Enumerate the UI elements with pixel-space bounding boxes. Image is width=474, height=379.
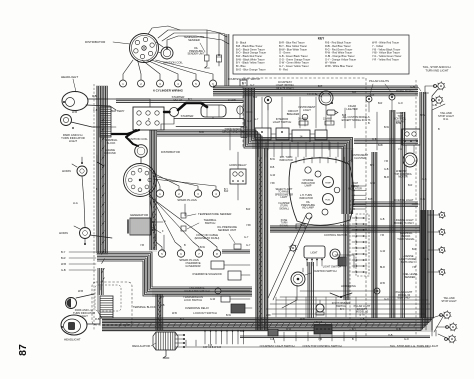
regulator leader xyxy=(151,343,156,346)
svg-text:G-B: G-B xyxy=(384,168,389,171)
floor connector dot b2 xyxy=(210,330,211,331)
distributor terminal 6 xyxy=(135,40,139,44)
east comb wire 4 xyxy=(352,199,366,201)
svg-text:Bl-R: Bl-R xyxy=(384,176,389,179)
svg-text:HORN: HORN xyxy=(62,169,71,173)
svg-text:DISTRIBUTOR: DISTRIBUTOR xyxy=(161,150,180,154)
cowl terminal block xyxy=(100,296,113,318)
floor connector dot b4 xyxy=(221,330,222,331)
arrow G-B xyxy=(69,269,96,271)
svg-text:G-O: G-O xyxy=(398,102,403,105)
pillar light bottom fil xyxy=(376,290,378,292)
horn upper body xyxy=(77,166,87,176)
floor connector stub b5 xyxy=(226,330,228,344)
svg-text:B-R: B-R xyxy=(61,256,66,260)
8cyl terminal 8 xyxy=(131,171,135,175)
distributor cap (6-cyl) outer xyxy=(130,34,159,63)
svg-text:MODEL 60 ONLY: MODEL 60 ONLY xyxy=(396,90,415,93)
svg-text:G-Y: G-Y xyxy=(254,118,259,121)
tail stop RH lamp upper xyxy=(437,81,446,90)
top rear band right xyxy=(213,86,418,95)
engine lower band xyxy=(222,250,250,253)
ignition coil (6-cyl) xyxy=(161,47,173,59)
floor band hatch xyxy=(119,323,417,328)
horn upper bracket xyxy=(72,164,77,167)
feeder stub 2 xyxy=(285,297,287,317)
tb row 1 xyxy=(352,217,367,219)
east comb dot 4 xyxy=(353,199,354,200)
svg-text:FUEL: FUEL xyxy=(325,200,331,202)
tb row dot L5 xyxy=(356,241,358,243)
cluster stub 2 xyxy=(303,157,305,163)
feeder stub 7 xyxy=(335,297,337,317)
svg-text:CLOCK: CLOCK xyxy=(307,92,317,96)
svg-text:Y-B Y B: Y-B Y B xyxy=(314,321,323,324)
east comb wire 1 xyxy=(352,185,366,187)
headlight RH lens xyxy=(66,98,75,107)
steering column line B xyxy=(273,217,311,300)
distributor terminal 5 xyxy=(134,49,138,53)
conv top control switch xyxy=(314,325,332,334)
svg-text:TERMINAL BLOCK: TERMINAL BLOCK xyxy=(133,305,156,309)
8cyl terminal 1 xyxy=(138,168,142,172)
cluster leader xyxy=(345,159,352,164)
tb row 7 xyxy=(352,253,367,255)
floor band stub r1 xyxy=(283,332,285,341)
8cyl center xyxy=(139,179,141,181)
svg-text:C-B: C-B xyxy=(270,338,275,341)
generator body xyxy=(130,218,151,235)
svg-text:KEY: KEY xyxy=(318,37,325,41)
tb row dot L9 xyxy=(356,265,358,267)
svg-text:R-B: R-B xyxy=(270,166,275,169)
battery-relay cable xyxy=(164,111,170,113)
svg-text:LICENSE LIGHT: LICENSE LIGHT xyxy=(394,198,414,202)
svg-text:COURTESY LIGHT SWITCH: COURTESY LIGHT SWITCH xyxy=(260,344,295,348)
svg-text:B-B: B-B xyxy=(342,114,347,117)
svg-text:TAIL, STOP AND L.H. TURN IND L: TAIL, STOP AND L.H. TURN IND LIGHT xyxy=(390,344,439,348)
courtesy sw leader xyxy=(273,337,275,343)
dimmer lead xyxy=(319,300,321,304)
floor connector dot b1 xyxy=(204,330,205,331)
plug wire 5 xyxy=(151,60,196,80)
temp sender mid leader xyxy=(187,214,196,216)
pillar bottom lead xyxy=(376,294,378,318)
coil run to vertical xyxy=(196,36,229,44)
panel stub 4 xyxy=(281,142,283,157)
dash band east continuation xyxy=(354,139,418,144)
kickdown switch xyxy=(215,288,221,294)
floor connector stub b1 xyxy=(204,330,206,344)
od wire 3 xyxy=(221,290,250,292)
horn lower bracket xyxy=(74,226,80,229)
light switch lead 3 xyxy=(316,260,318,266)
svg-text:PILLAR LIGHTS: PILLAR LIGHTS xyxy=(369,79,389,83)
floor connector stub b2 xyxy=(210,330,212,344)
connecting wire 2 xyxy=(104,126,116,128)
svg-text:B-R: B-R xyxy=(412,248,417,251)
cigar lighter symbol xyxy=(327,110,335,115)
generator terminal A xyxy=(152,221,154,223)
conv sw terminal 4 xyxy=(328,328,330,330)
pillar leader R xyxy=(385,84,391,92)
headlight LH feed xyxy=(87,318,100,324)
panel link 2 xyxy=(289,133,292,135)
svg-text:CONTROL SWITCH: CONTROL SWITCH xyxy=(324,234,347,237)
headlight RH feed xyxy=(88,99,150,107)
right harness B xyxy=(390,110,395,318)
engine dash band into mid column xyxy=(157,130,262,330)
leader to distributor xyxy=(113,42,130,44)
horn upper coil xyxy=(80,169,84,173)
lighter drop xyxy=(330,115,332,124)
svg-text:B-B: B-B xyxy=(352,91,357,94)
svg-text:IGNITION SWITCH: IGNITION SWITCH xyxy=(314,269,337,273)
svg-text:B-Bl: B-Bl xyxy=(368,198,373,201)
svg-text:Bl-R - Blue Red TracerBl-Y - B: Bl-R - Blue Red TracerBl-Y - Blue Yellow… xyxy=(279,41,310,72)
svg-text:Y-Bl: Y-Bl xyxy=(266,314,271,317)
arrow B-Y xyxy=(69,251,96,253)
8cyl terminal 5 xyxy=(138,188,142,192)
panel stub 3 xyxy=(273,142,275,157)
panel stub 5 xyxy=(289,142,291,157)
light switch terminal 4 xyxy=(321,259,323,261)
distributor rotor dot xyxy=(143,47,144,48)
starter relay xyxy=(170,108,179,117)
plug wire 4 xyxy=(147,60,179,80)
svg-text:G-Y: G-Y xyxy=(250,84,255,87)
fuel gauge xyxy=(323,194,334,205)
svg-text:C-B Y-B B-W G-B: C-B Y-B B-W G-B xyxy=(203,347,221,349)
panel stub 2 xyxy=(265,142,267,157)
RH tail feed 1 xyxy=(432,89,438,330)
park turn RH lens xyxy=(63,117,68,122)
feeder stub 3 xyxy=(295,297,297,317)
conv top motor xyxy=(403,153,417,167)
regulator terminal stub 3 xyxy=(175,342,184,344)
floor band stub r7 xyxy=(355,332,357,341)
east comb dot 1 xyxy=(353,185,354,186)
svg-text:HEADLIGHT: HEADLIGHT xyxy=(61,75,78,79)
tb row dot R6 xyxy=(363,247,365,249)
rear feeder 3 xyxy=(272,313,425,315)
feeder stub 6 xyxy=(325,297,327,317)
conv top control relay xyxy=(402,129,420,145)
svg-text:B-R: B-R xyxy=(370,94,375,97)
feeder stub 8 xyxy=(345,297,347,317)
overdrive solenoid xyxy=(228,271,241,280)
rear lamp lead y215 xyxy=(428,214,439,216)
plug wire 1 xyxy=(123,60,133,80)
cluster stub 5 xyxy=(327,157,329,163)
cap side wire xyxy=(156,42,163,47)
engine ground wire xyxy=(97,155,104,166)
horn upper terminal xyxy=(81,162,83,164)
cluster stub 6 xyxy=(335,157,337,163)
interior light switch xyxy=(255,128,271,140)
ignition coil inner xyxy=(163,49,171,57)
svg-text:HEADLIGHT: HEADLIGHT xyxy=(64,338,81,342)
east comb wire 6 xyxy=(352,208,366,210)
fuse riser 2 xyxy=(354,108,356,128)
spark plug 1 xyxy=(156,190,163,197)
starter down lead xyxy=(212,117,214,119)
instrument cluster outline xyxy=(289,158,354,226)
panel stub 6 xyxy=(297,142,299,157)
svg-text:O-Bl: O-Bl xyxy=(420,198,425,201)
svg-text:B-W: B-W xyxy=(396,122,402,125)
panel stub 1 xyxy=(257,142,259,157)
svg-text:OVERDRIVE SOLENOID: OVERDRIVE SOLENOID xyxy=(192,272,222,276)
cap top wire xyxy=(148,26,180,34)
starter out loop right xyxy=(243,119,245,127)
ct relay pts xyxy=(412,132,416,136)
main dash band underlay xyxy=(252,137,353,149)
relay-motor lead 1 xyxy=(405,145,407,153)
light switch knob inner xyxy=(332,251,337,256)
ignition coil (8-cyl) core xyxy=(137,147,145,155)
8cyl terminal 6 xyxy=(131,185,135,189)
connecting wire 8 xyxy=(335,255,354,268)
ignition switch leader xyxy=(305,273,311,275)
svg-text:B-Y: B-Y xyxy=(352,328,357,331)
ignition switch xyxy=(291,272,305,286)
fw connector 1 xyxy=(241,127,247,132)
thermal switch xyxy=(181,226,186,231)
connecting wire 31 xyxy=(436,326,447,328)
horn relay coil xyxy=(233,172,237,176)
15A fuse xyxy=(325,121,334,125)
key box frame xyxy=(233,35,409,74)
column dashed boundary xyxy=(349,200,351,330)
plug wire 5 8cyl xyxy=(149,190,162,250)
panel lamp left xyxy=(289,244,297,253)
temp sender symbol xyxy=(205,55,210,61)
od wire 1 xyxy=(224,264,250,266)
svg-text:15 AMP: 15 AMP xyxy=(323,118,332,121)
regulator terminal 1 xyxy=(183,334,185,336)
rear lamp lead y232 xyxy=(428,231,439,233)
coil top wire xyxy=(167,36,196,47)
svg-text:B-W: B-W xyxy=(200,246,206,249)
tail LH lamp B xyxy=(449,322,458,331)
8cyl terminal 4 xyxy=(145,185,149,189)
tb row dot L4 xyxy=(356,235,358,237)
panel feed drop 2 xyxy=(281,97,283,128)
svg-text:Y-B: Y-B xyxy=(412,266,416,269)
cluster stub 7 xyxy=(343,157,345,163)
east band 202 xyxy=(352,202,418,207)
cowl dashed xyxy=(365,78,367,336)
engine column underlay xyxy=(149,130,157,252)
svg-text:W-B: W-B xyxy=(78,289,83,293)
tb row dot R10 xyxy=(363,271,365,273)
floor connector stub b6 xyxy=(232,330,234,344)
distributor terminal 4 xyxy=(140,54,144,58)
ct relay coil xyxy=(405,132,409,136)
svg-text:W-B: W-B xyxy=(380,282,385,285)
connecting wire 11 xyxy=(246,111,252,113)
firewall column and main dash band xyxy=(244,88,353,214)
right drop underlay xyxy=(342,148,354,214)
svg-text:HORN RING: HORN RING xyxy=(341,284,356,288)
courtesy light center xyxy=(267,99,269,101)
firewall column underlay xyxy=(244,88,255,138)
svg-text:G-W: G-W xyxy=(210,298,216,301)
floor connector dot b6 xyxy=(232,330,233,331)
connecting wire 28 xyxy=(425,92,427,330)
relay-motor lead 2 xyxy=(413,145,415,153)
oil sender mid leader xyxy=(229,234,235,243)
connecting wire 16 xyxy=(229,128,231,150)
arrow W-B xyxy=(69,263,96,265)
park RH terminal xyxy=(72,127,74,129)
svg-text:OVERDRIVEGOVERNOR: OVERDRIVEGOVERNOR xyxy=(185,261,201,268)
horn lower ground xyxy=(84,239,86,244)
tail LH lamp C xyxy=(448,334,457,343)
svg-text:G-B: G-B xyxy=(61,268,66,272)
pillar light L fil xyxy=(368,98,370,100)
connecting wire 22 xyxy=(376,112,378,150)
spark plug circle 2 xyxy=(138,80,145,87)
floor connector dot b8 xyxy=(243,330,244,331)
park turn RH light xyxy=(61,115,72,126)
light switch lead 2 xyxy=(311,260,313,266)
svg-text:Y-B: Y-B xyxy=(140,244,144,247)
staircase underlay xyxy=(152,288,252,297)
connecting wire 9 xyxy=(302,268,304,272)
conv sw terminal 3 xyxy=(324,328,326,330)
sender wire B xyxy=(162,33,219,55)
fw connector 2 xyxy=(241,133,247,138)
pillar L drop xyxy=(368,102,370,112)
light switch terminal 2 xyxy=(311,259,313,261)
distributor terminal 3 xyxy=(148,51,152,55)
relay aux wire xyxy=(161,117,174,125)
svg-text:B-W: B-W xyxy=(199,131,205,134)
feeder stub 5 xyxy=(315,297,317,317)
under-cluster band underlay xyxy=(270,225,420,233)
cowl terminal block dashed box xyxy=(92,282,132,325)
park RH feed xyxy=(71,122,104,127)
tb row dot R7 xyxy=(363,253,365,255)
pillar R drop xyxy=(391,100,393,112)
fuse lead xyxy=(239,114,241,119)
floor band stub r5 xyxy=(331,332,333,341)
connecting wire 21 xyxy=(412,203,420,205)
east comb dot 3 xyxy=(353,195,354,196)
floor band stub r2 xyxy=(295,332,297,341)
regulator drop column xyxy=(156,294,162,330)
starter out loop bottom xyxy=(176,126,243,128)
top band left part xyxy=(116,99,243,102)
svg-text:REGULATOR: REGULATOR xyxy=(132,344,150,348)
tb row 6 xyxy=(352,247,367,249)
plug wire 8 8cyl xyxy=(149,196,217,250)
svg-text:Y-B: Y-B xyxy=(384,160,388,163)
rear feeder 2 xyxy=(266,308,430,310)
svg-text:G-B: G-B xyxy=(340,224,345,227)
svg-text:LIGHT: LIGHT xyxy=(310,252,318,255)
connecting wire 7 xyxy=(304,120,306,126)
light switch terminal 3 xyxy=(316,259,318,261)
mid column underlay xyxy=(255,140,269,330)
spark plug circle 1 xyxy=(120,80,127,87)
horn ring symbol xyxy=(330,293,352,297)
svg-text:G-B: G-B xyxy=(372,138,377,141)
svg-text:Y-B: Y-B xyxy=(398,148,402,151)
svg-text:B-W: B-W xyxy=(270,158,276,161)
svg-text:W-B: W-B xyxy=(72,110,77,114)
generator end bell xyxy=(127,220,129,233)
license light 3 xyxy=(438,246,446,254)
lighter feed block xyxy=(315,130,327,140)
connecting wire 30 xyxy=(438,334,449,339)
spark plug circle 6 xyxy=(210,80,217,87)
light switch body xyxy=(304,246,325,258)
connecting wire 27 xyxy=(431,330,433,336)
connecting wire 3 xyxy=(163,235,165,252)
top rear band underlay xyxy=(213,86,418,97)
svg-text:CONV TOP CONTROL SWITCH: CONV TOP CONTROL SWITCH xyxy=(302,344,341,348)
svg-text:G-Y: G-Y xyxy=(247,120,252,123)
headlight RH terminal xyxy=(63,101,65,103)
svg-text:HORN: HORN xyxy=(59,231,68,235)
connecting wire 19 xyxy=(243,94,252,96)
tb row dot L2 xyxy=(356,223,358,225)
distributor cap (8-cyl) xyxy=(124,164,157,197)
pillar light bottom xyxy=(374,288,380,294)
dash top dashed xyxy=(243,77,366,79)
switch drop harness xyxy=(344,214,349,300)
connecting wire 29 xyxy=(432,315,441,318)
plug wire 1 8cyl xyxy=(153,170,160,190)
panel feed drop 3 xyxy=(299,97,301,128)
tail harness underlay xyxy=(419,92,427,318)
rear lamp lead y250 xyxy=(428,249,439,251)
horn relay term 2 xyxy=(237,180,239,182)
feeder stub 1 xyxy=(275,297,277,317)
ct relay term 1 xyxy=(404,140,406,142)
left loom lower xyxy=(98,268,103,295)
svg-text:THERMALSWITCH: THERMALSWITCH xyxy=(204,218,217,225)
svg-text:W-B: W-B xyxy=(300,318,305,321)
svg-text:B-W: B-W xyxy=(384,126,390,129)
plug wire 3 xyxy=(142,60,160,80)
tb row dot R2 xyxy=(363,223,365,225)
svg-text:H-G: H-G xyxy=(73,201,78,205)
connecting wire 17 xyxy=(267,140,269,146)
horn relay drop xyxy=(237,184,239,200)
panel stub 9 xyxy=(321,142,323,157)
pillar light L xyxy=(366,96,372,102)
svg-text:6 CYLINDER WIRING: 6 CYLINDER WIRING xyxy=(153,89,184,93)
panel stub 10 xyxy=(329,142,331,157)
light switch drop xyxy=(308,262,313,318)
svg-text:B-Y: B-Y xyxy=(180,318,185,321)
svg-text:BATTERY: BATTERY xyxy=(111,109,125,113)
ignition switch bezel xyxy=(293,274,302,283)
floor connector stub b3 xyxy=(215,330,217,344)
regulator terminal 4 xyxy=(183,346,185,348)
mid column extra xyxy=(265,148,268,330)
svg-text:CONV OD CABLE(ENGINE TO DASH): CONV OD CABLE(ENGINE TO DASH) xyxy=(195,233,220,240)
connecting wire 14 xyxy=(351,150,353,162)
regulator terminal stub 1 xyxy=(175,334,184,336)
regulator body xyxy=(156,332,175,350)
RH turn indicator xyxy=(305,167,311,173)
connecting wire 26 xyxy=(435,330,437,336)
